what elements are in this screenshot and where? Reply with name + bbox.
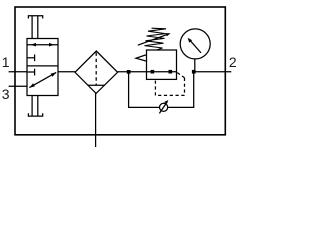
gauge G1 needle: [188, 38, 201, 53]
gauge G1 body: [180, 29, 210, 59]
regulator R1 relief vent arrow: [136, 55, 146, 61]
wire filter to regulator: [118, 71, 147, 73]
regulator R1 adjustment arrow: [138, 33, 171, 45]
wire bypass loop left: [129, 72, 160, 108]
svg-text:2: 2: [229, 54, 237, 70]
valve V1 bottom push-button actuator: [28, 96, 42, 117]
regulator R1 adjustment spring: [145, 28, 167, 50]
gauge G1 stem wire: [194, 59, 196, 72]
valve V1 position a blocked port 3: [27, 54, 35, 61]
filter F1 body (diamond): [75, 51, 118, 93]
node junction pilot left on flow line: [151, 70, 155, 74]
check valve C1 circle: [160, 103, 168, 111]
node junction pilot right on flow line: [169, 70, 173, 74]
port 2: [194, 54, 237, 72]
port 3: [2, 86, 27, 102]
wire bypass loop right: [168, 72, 194, 108]
valve V1 position b flow path 2-3 (diagonal double arrow): [29, 72, 56, 87]
svg-text:1: 1: [2, 54, 10, 70]
enclosure frame wire: [15, 7, 225, 135]
valve V1 position a flow path 1-2 (double arrow): [27, 43, 58, 47]
node junction gauge: [192, 70, 196, 74]
valve V1 top push-button actuator: [28, 16, 42, 39]
valve V1 3/2 shut-off valve body: [27, 39, 58, 96]
node junction bypass left: [127, 70, 131, 74]
wire valve to filter: [58, 71, 75, 73]
regulator R1 pilot line (dashed): [155, 73, 184, 96]
valve V1 position b blocked port 1: [27, 69, 35, 76]
port 1: [2, 54, 27, 72]
svg-text:3: 3: [2, 86, 10, 102]
filter F1 condensate drain line: [95, 93, 97, 147]
regulator R1 body: [147, 50, 177, 79]
filter F1 water separator chord: [88, 84, 105, 86]
check valve C1 flow arrow: [159, 100, 168, 113]
filter F1 element (dashed): [95, 53, 97, 86]
